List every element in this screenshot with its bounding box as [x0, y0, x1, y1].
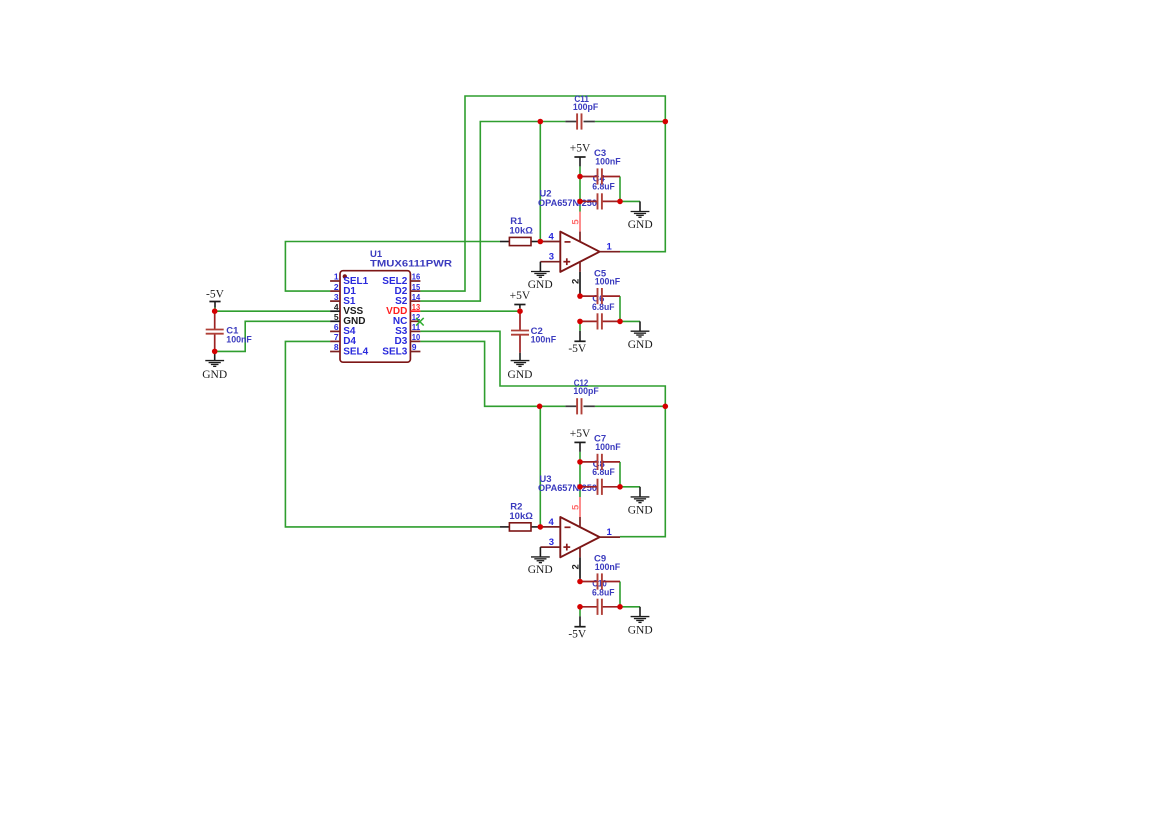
wire: +5V stem to C3/C4 node	[579, 166, 581, 176]
wire: C11 right lead to output loop junction	[595, 121, 665, 123]
wire: cap right side vertical (C3/C4)	[619, 177, 621, 202]
capacitor C1	[214, 311, 216, 329]
capacitor C7	[580, 461, 598, 463]
wire: op-amp V- to C5/C6 row	[579, 294, 581, 297]
wire: power rail between cap rows (C7/C8)	[579, 462, 581, 487]
wire: U1 pin7 D4 left-down to R2	[285, 341, 500, 527]
node C9/C10 right	[617, 604, 623, 610]
capacitor C8	[580, 486, 598, 488]
ground symbol (top caps)	[631, 212, 650, 218]
node C8 left	[577, 484, 583, 490]
wire: U1 pin11 S3 to lower top net and U3 output loop	[420, 331, 665, 536]
U1 pin 16 (SEL2) stub	[410, 280, 420, 282]
node -5V/C1/VSS	[212, 308, 218, 314]
capacitor C10	[580, 606, 598, 608]
wire: cap row to GND (C7/C8)	[620, 486, 640, 488]
svg-text:GND: GND	[628, 625, 653, 637]
U1 pin 6 (S4) stub	[330, 330, 340, 332]
svg-text:15: 15	[412, 282, 421, 292]
U1 pin-1 indicator dot	[343, 274, 347, 278]
svg-text:2: 2	[571, 279, 582, 284]
svg-text:10kΩ: 10kΩ	[509, 511, 533, 522]
svg-text:+5V: +5V	[510, 290, 531, 302]
wire: cap right side vertical (C5/C6)	[619, 296, 621, 321]
power symbol -5V (above C1)	[209, 301, 220, 303]
op-amp U2 pin 2 (V-) line	[579, 262, 581, 272]
node U2 V-/C5	[577, 293, 583, 299]
svg-text:100nF: 100nF	[226, 335, 252, 346]
node C7/C8 right	[617, 484, 623, 490]
svg-text:-5V: -5V	[568, 628, 587, 640]
U1 pin 13 (VDD) stub	[410, 310, 420, 312]
op-amp U2 triangle	[560, 232, 599, 272]
op-amp U2 pin 1 (output) stub	[600, 251, 620, 253]
IC U1 TMUX6111PWR body	[340, 271, 410, 363]
wire: C12 left node down to R2 / U3 inverting input	[539, 406, 541, 527]
U1 pin 11 (S3) stub	[410, 330, 420, 332]
svg-text:3: 3	[549, 251, 554, 262]
U1 pin 1 (SEL1) stub	[330, 280, 340, 282]
svg-text:2: 2	[334, 282, 339, 292]
op-amp U2 pin 5 (V+) line	[579, 212, 581, 232]
wire: C1 bottom node to U1 pin5 GND	[215, 321, 330, 351]
svg-text:100nF: 100nF	[595, 442, 621, 453]
svg-text:+5V: +5V	[570, 143, 591, 155]
op-amp U2 plus symbol	[563, 258, 570, 265]
node U3 V-/C9	[577, 579, 583, 585]
node C5/C6 right	[617, 319, 623, 325]
no-connect X on U1 pin 12	[416, 318, 424, 326]
svg-text:SEL3: SEL3	[382, 346, 407, 357]
op-amp U3 pin 1 (output) stub	[600, 536, 620, 538]
capacitor C4	[580, 200, 598, 202]
node C10 left/-5V	[577, 604, 583, 610]
svg-text:3: 3	[549, 537, 554, 548]
svg-text:100pF: 100pF	[573, 386, 598, 397]
svg-text:+5V: +5V	[570, 428, 591, 440]
capacitor C12	[565, 405, 577, 407]
ground symbol (bottom caps)	[631, 331, 650, 337]
ground symbol (bottom caps)	[631, 617, 650, 623]
U1 pin 4 (VSS) stub	[330, 310, 340, 312]
power symbol -5V (op-amp rail)	[579, 331, 581, 341]
svg-text:2: 2	[571, 564, 582, 569]
node VDD/+5V/C2	[517, 308, 523, 314]
svg-text:OPA657N/250: OPA657N/250	[538, 483, 597, 494]
power symbol +5V (op-amp rail)	[574, 156, 585, 158]
wire: cap right side vertical (C9/C10)	[619, 582, 621, 607]
op-amp U3 pin 4 (inverting input) stub	[540, 526, 560, 528]
svg-text:8: 8	[334, 342, 339, 352]
node C4 left	[577, 199, 583, 205]
node C1/GND wire	[212, 349, 218, 355]
node R2/U3 inverting input	[538, 524, 544, 530]
svg-text:-5V: -5V	[206, 289, 225, 301]
wire: cap right side vertical (C7/C8)	[619, 462, 621, 487]
resistor R1 body	[500, 241, 509, 243]
U1 pin 7 (D4) stub	[330, 340, 340, 342]
svg-text:GND: GND	[628, 505, 653, 517]
wire: U1 pin13 VDD to +5V / C2 node	[420, 310, 520, 312]
svg-text:11: 11	[412, 322, 421, 332]
wire: power rail between cap rows (C3/C4)	[579, 177, 581, 202]
svg-text:9: 9	[412, 342, 417, 352]
svg-text:10: 10	[412, 332, 421, 342]
svg-text:5: 5	[571, 219, 582, 225]
op-amp U3 pin 3 (non-inverting input) stub	[540, 546, 560, 548]
svg-text:-5V: -5V	[568, 343, 587, 355]
svg-text:6.8uF: 6.8uF	[592, 467, 615, 478]
wire: C9/C10 row to GND	[620, 606, 640, 608]
wire: U1 pin2 D1 left-up to R1	[285, 242, 500, 292]
node C12 left	[537, 404, 543, 410]
op-amp U3 pin 2 (V-) line	[579, 547, 581, 557]
svg-text:1: 1	[607, 242, 613, 253]
ground symbol (below C2)	[519, 353, 521, 361]
ground symbol (op-amp pin 3)	[539, 262, 541, 272]
capacitor C6	[580, 320, 598, 322]
svg-text:6.8uF: 6.8uF	[592, 182, 615, 193]
svg-text:4: 4	[549, 517, 555, 528]
node +5V/C7	[577, 459, 583, 465]
node C3/C4 right	[617, 199, 623, 205]
svg-text:OPA657N/250: OPA657N/250	[538, 198, 597, 209]
svg-text:GND: GND	[508, 369, 533, 381]
op-amp U3 plus symbol	[563, 544, 570, 551]
ground symbol (op-amp pin 3)	[539, 547, 541, 557]
svg-text:SEL4: SEL4	[343, 346, 368, 357]
op-amp U3 triangle	[560, 517, 599, 557]
node C11 left	[538, 119, 544, 125]
U1 pin 8 (SEL4) stub	[330, 351, 340, 353]
U1 pin 12 (NC) stub	[410, 320, 420, 322]
capacitor C9	[580, 581, 598, 583]
capacitor C11	[565, 121, 577, 123]
U1 pin 5 (GND) stub	[330, 320, 340, 322]
svg-text:100nF: 100nF	[531, 334, 557, 345]
power symbol -5V (op-amp rail)	[579, 616, 581, 626]
wire: C5/C6 row down to -5V	[579, 321, 581, 331]
svg-text:13: 13	[412, 302, 421, 312]
svg-text:6.8uF: 6.8uF	[592, 587, 615, 598]
wire: U1 pin14 S2 to C11 left node	[420, 122, 565, 302]
resistor R2 body	[500, 526, 509, 528]
svg-text:GND: GND	[202, 369, 227, 381]
svg-text:100nF: 100nF	[595, 277, 621, 288]
wire: +5V stem to C2 node	[519, 308, 521, 311]
node +5V/C3	[577, 174, 583, 180]
U1 pin 15 (D2) stub	[410, 290, 420, 292]
wire: U1 pin15 D2 to top net and U2 output loop	[420, 96, 665, 291]
wire: cap row to GND (C3/C4)	[620, 200, 640, 202]
svg-text:6.8uF: 6.8uF	[592, 302, 615, 313]
node C6 left/-5V	[577, 319, 583, 325]
wire: -5V / C1 top node to U1 pin4 VSS	[215, 310, 330, 312]
svg-text:10kΩ: 10kΩ	[509, 226, 533, 237]
wire: C11 left node down to R1 / U2 inverting input	[539, 122, 541, 242]
svg-text:GND: GND	[628, 219, 653, 231]
svg-text:14: 14	[412, 292, 421, 302]
op-amp U3 pin 5 (V+) line	[579, 497, 581, 517]
wire: +5V stem to C7/C8 node	[579, 452, 581, 462]
U1 pin 14 (S2) stub	[410, 300, 420, 302]
svg-text:3: 3	[334, 292, 339, 302]
svg-text:GND: GND	[628, 339, 653, 351]
node C12 right	[663, 404, 669, 410]
wire: C9/C10 row down to -5V	[579, 607, 581, 617]
svg-text:GND: GND	[528, 564, 553, 576]
svg-text:6: 6	[334, 322, 339, 332]
svg-text:1: 1	[607, 527, 613, 538]
U1 pin 3 (S1) stub	[330, 300, 340, 302]
svg-text:4: 4	[334, 302, 339, 312]
U1 pin 10 (D3) stub	[410, 340, 420, 342]
ground symbol (below C1)	[214, 351, 216, 360]
power symbol +5V (op-amp rail)	[574, 441, 585, 443]
node C11 right	[663, 119, 669, 125]
svg-text:1: 1	[334, 272, 339, 282]
U1 pin 9 (SEL3) stub	[410, 351, 420, 353]
svg-text:100pF: 100pF	[573, 102, 598, 113]
op-amp U3 minus symbol	[565, 526, 571, 528]
op-amp U2 pin 3 (non-inverting input) stub	[540, 261, 560, 263]
svg-text:100nF: 100nF	[595, 157, 621, 168]
op-amp U2 minus symbol	[565, 241, 571, 243]
svg-text:5: 5	[571, 504, 582, 510]
wire: C5/C6 row to GND	[620, 320, 640, 322]
svg-text:TMUX6111PWR: TMUX6111PWR	[370, 259, 452, 270]
power symbol +5V (above C2)	[514, 304, 525, 306]
svg-text:5: 5	[334, 312, 339, 322]
ground symbol (top caps)	[631, 497, 650, 503]
U1 pin 2 (D1) stub	[330, 290, 340, 292]
wire: U1 pin10 D3 to C12 left lead	[420, 341, 565, 406]
capacitor C5	[580, 295, 598, 297]
node R1/U2 inverting input	[538, 239, 544, 245]
svg-text:7: 7	[334, 332, 339, 342]
capacitor C2	[519, 311, 521, 330]
svg-text:GND: GND	[528, 279, 553, 291]
wire: op-amp V- to C9/C10 row	[579, 579, 581, 582]
svg-text:4: 4	[549, 232, 555, 243]
wire: C12 right lead to output loop junction	[595, 405, 665, 407]
op-amp U2 pin 4 (inverting input) stub	[540, 241, 560, 243]
svg-text:16: 16	[412, 272, 421, 282]
capacitor C3	[580, 176, 598, 178]
svg-text:100nF: 100nF	[595, 562, 621, 573]
